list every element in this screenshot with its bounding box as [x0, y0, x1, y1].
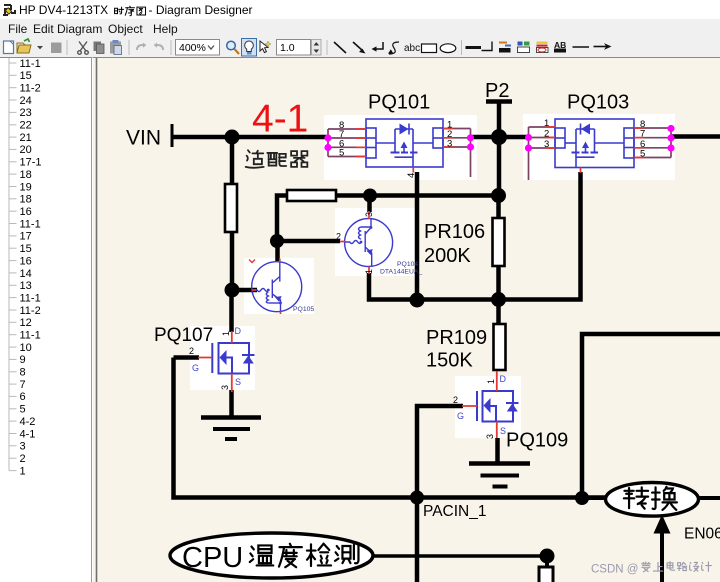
svg-text:PR109: PR109: [426, 327, 487, 349]
svg-text:11-1: 11-1: [20, 292, 41, 304]
svg-text:13: 13: [20, 280, 32, 292]
wire PACIN_1: [174, 358, 607, 498]
label adapter (Chinese): [246, 150, 264, 168]
wire PQ109 source to ground: [495, 438, 500, 463]
svg-text:1: 1: [364, 269, 374, 274]
PQ103 magenta pins: [525, 134, 532, 141]
svg-text:150K: 150K: [426, 350, 473, 372]
svg-text:16: 16: [20, 255, 32, 267]
svg-text:5: 5: [640, 149, 645, 160]
node N junction: [540, 549, 555, 564]
PQ104 pin numbers: [336, 212, 374, 274]
node H junction: [491, 188, 506, 203]
svg-text:2: 2: [20, 453, 26, 465]
resistor PR109: [494, 324, 506, 370]
PQ109 pin stubs: [462, 371, 497, 438]
svg-text:23: 23: [20, 107, 32, 119]
svg-text:15: 15: [20, 243, 32, 255]
node E junction: [410, 293, 425, 308]
PQ101 pin 4 stub: [412, 167, 414, 173]
wire convert right: [698, 496, 720, 500]
wire PQ107 gate stub: [174, 355, 200, 360]
svg-text:7: 7: [20, 379, 26, 391]
svg-text:CSDN @: CSDN @: [591, 564, 638, 576]
node C junction: [270, 234, 284, 248]
svg-text:2: 2: [189, 346, 194, 356]
node B junction: [225, 283, 240, 298]
svg-text:22: 22: [20, 120, 32, 132]
svg-text:P2: P2: [485, 80, 509, 102]
component background PQ105: [244, 258, 314, 314]
wire left of horizontal resistor: [277, 196, 287, 242]
wire PQ103 out right: [671, 134, 720, 139]
wire node F to PQ103 pin4 corner: [499, 172, 581, 300]
svg-text:VIN: VIN: [126, 127, 161, 150]
PQ109 pin labels: [453, 379, 496, 439]
wire node C down to PQ105 collector: [275, 241, 280, 261]
svg-text:4-1: 4-1: [20, 428, 36, 440]
component background PQ109: [455, 376, 521, 438]
node F junction: [491, 292, 506, 307]
svg-text:18: 18: [20, 194, 32, 206]
svg-text:5: 5: [20, 404, 26, 416]
node G junction (P2): [491, 129, 507, 145]
svg-text:abc: abc: [404, 43, 420, 54]
component background PQ107: [190, 326, 255, 390]
page border: [96, 58, 98, 582]
svg-text:11-2: 11-2: [20, 83, 41, 95]
svg-text:5: 5: [339, 148, 344, 159]
wire node B to PQ105 base: [232, 288, 257, 293]
PQ103 pin numbers: [544, 118, 645, 160]
PQ101 pin stubs left: [328, 129, 366, 157]
svg-text:14: 14: [20, 268, 32, 280]
svg-text:PQ101: PQ101: [368, 92, 430, 114]
PQ103 pin stubs right: [634, 128, 671, 158]
svg-text:24: 24: [20, 95, 32, 107]
wire PQ101 pin4 down: [415, 172, 420, 300]
resistor (VIN divider): [225, 184, 237, 232]
svg-text:11-1: 11-1: [20, 330, 41, 342]
svg-text:21: 21: [20, 132, 32, 144]
resistor below node N: [545, 562, 549, 568]
label convert (Chinese): [624, 487, 648, 508]
svg-text:1: 1: [221, 331, 231, 336]
PQ107 pin labels: [189, 331, 231, 390]
svg-text:PQ109: PQ109: [506, 430, 568, 452]
wire node H to PR106: [496, 196, 501, 221]
svg-text:8: 8: [20, 367, 26, 379]
wire node F to PR109: [496, 300, 501, 327]
svg-text:PR106: PR106: [424, 221, 485, 243]
wire node L to ellipse: [582, 496, 607, 500]
svg-text:3: 3: [20, 441, 26, 453]
svg-text:10: 10: [20, 342, 32, 354]
wire node E to node F: [417, 297, 499, 302]
svg-text:15: 15: [20, 70, 32, 82]
svg-text:PQ104: PQ104: [397, 261, 418, 268]
PQ101 pin numbers: [339, 120, 452, 179]
wire PQ109 gate corner: [417, 406, 463, 498]
svg-text:DTA144EUA_: DTA144EUA_: [380, 269, 422, 276]
svg-text:11-1: 11-1: [20, 58, 41, 70]
svg-text:CPU: CPU: [182, 542, 243, 574]
PQ105 marker: [249, 260, 255, 263]
svg-text:2: 2: [544, 129, 549, 140]
P2 terminal: [486, 99, 512, 104]
svg-text:20: 20: [20, 144, 32, 156]
wire resistor to node B: [230, 232, 235, 290]
arrow into convert: [660, 533, 664, 582]
svg-text:11-2: 11-2: [20, 305, 41, 317]
svg-text:G: G: [192, 363, 199, 373]
svg-text:S: S: [235, 377, 241, 387]
node L junction: [575, 491, 589, 505]
svg-text:17-1: 17-1: [20, 157, 42, 169]
svg-text:EN06: EN06: [684, 526, 720, 543]
wire P2 node right to PQ103 pins: [499, 135, 528, 140]
svg-text:G: G: [457, 411, 464, 421]
wire resistor to P2 line: [336, 193, 499, 198]
svg-text:9: 9: [20, 354, 26, 366]
component background PQ103: [523, 114, 675, 180]
ground PQ107: [201, 418, 261, 440]
resistor (horizontal, PQ104 emitter): [287, 190, 336, 201]
svg-text:2: 2: [336, 232, 341, 242]
svg-text:1.0: 1.0: [280, 42, 295, 54]
wire CPU ellipse to node N: [373, 554, 540, 558]
wire node M down: [415, 498, 420, 582]
svg-text:1: 1: [544, 118, 549, 129]
svg-text:19: 19: [20, 181, 32, 193]
svg-text:4-1: 4-1: [252, 98, 308, 141]
ellipse convert: [606, 483, 699, 517]
wire node B down to PQ107 drain: [229, 290, 234, 332]
transistor PQ105: [252, 262, 302, 312]
svg-text:4-2: 4-2: [20, 416, 36, 428]
PQ104 pin stubs: [340, 211, 369, 274]
PQ107 pin stubs: [198, 331, 232, 392]
wire P2 node left to PQ101 pins: [471, 135, 499, 140]
PQ104 value label: [380, 261, 422, 276]
wire P2 down: [497, 102, 502, 197]
node D junction: [363, 189, 377, 203]
transistor PQ109: [477, 391, 519, 422]
resistor PR106: [493, 218, 505, 266]
svg-text:PQ107: PQ107: [154, 325, 213, 346]
ellipse CPU temperature detect: [170, 533, 373, 578]
svg-text:11-1: 11-1: [20, 218, 41, 230]
svg-text:400%: 400%: [179, 42, 206, 54]
svg-text:6: 6: [20, 391, 26, 403]
wire right branch corner: [582, 334, 720, 498]
svg-text:16: 16: [20, 206, 32, 218]
svg-text:18: 18: [20, 169, 32, 181]
transistor PQ107: [212, 343, 254, 374]
transistor PQ104 DTA144EUA: [345, 219, 393, 267]
svg-text:PQ103: PQ103: [567, 92, 629, 114]
PQ101 pin stubs right: [443, 129, 471, 178]
svg-text:3: 3: [485, 434, 495, 439]
svg-text:17: 17: [20, 231, 32, 243]
svg-text:3: 3: [220, 385, 230, 390]
svg-text:12: 12: [20, 317, 32, 329]
wire PR106 to node F: [496, 266, 501, 300]
wire VIN to PQ101 pins: [172, 135, 328, 140]
VIN terminal: [171, 124, 174, 147]
wire node D down to PQ104 top pin: [367, 196, 372, 213]
component background PQ101: [324, 115, 477, 180]
svg-text:PACIN_1: PACIN_1: [423, 503, 486, 520]
wire node C to PQ104 base: [277, 239, 340, 244]
PQ103 pin stubs left: [529, 127, 556, 180]
svg-text:1: 1: [20, 465, 26, 477]
ground PQ109: [469, 464, 530, 487]
wire VIN down to resistor: [230, 137, 235, 186]
node VIN junction: [225, 130, 240, 145]
node M junction: [410, 491, 424, 505]
PQ103 pin 4 stub: [580, 168, 582, 174]
svg-text:D: D: [235, 326, 242, 336]
svg-text:PQ105: PQ105: [293, 306, 314, 313]
op-to... MOSFET pack PQ101: [366, 119, 443, 167]
svg-text:200K: 200K: [424, 245, 471, 267]
wire PQ104 bottom to node E: [369, 273, 417, 300]
wire PQ107 source to ground: [229, 390, 234, 417]
component background PQ104: [335, 208, 418, 276]
svg-text:4: 4: [406, 173, 417, 178]
svg-text:D: D: [500, 374, 507, 384]
PQ101 magenta pins: [324, 134, 331, 141]
MOSFET pack PQ103: [555, 119, 634, 168]
svg-text:1: 1: [486, 379, 496, 384]
svg-text:3: 3: [447, 138, 452, 149]
PQ105 pin stubs: [252, 259, 281, 315]
svg-text:2: 2: [453, 395, 458, 405]
svg-text:3: 3: [364, 212, 374, 217]
svg-text:3: 3: [544, 139, 549, 150]
